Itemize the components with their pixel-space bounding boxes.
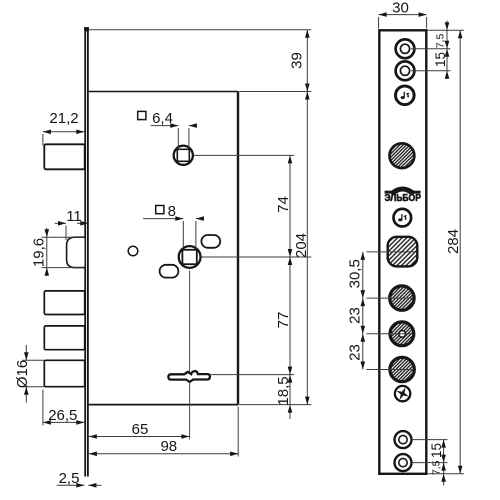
svg-text:11: 11 (66, 208, 82, 225)
faceplate front view plate (379, 30, 426, 474)
dim diameter 16 (22, 345, 44, 403)
deadbolt 3 (44, 360, 84, 386)
latch bolt (beveled) (67, 237, 85, 267)
dim 19,6 (42, 228, 84, 276)
svg-text:30: 30 (392, 0, 409, 16)
dim 98 (89, 407, 238, 457)
faceplate edge view (left) (84, 27, 89, 477)
bolt hole A (hatched) (390, 286, 414, 310)
top bolt (21.2) (44, 144, 84, 169)
svg-text:98: 98 (160, 438, 177, 455)
bottom right dims: 15 / 7,5 (412, 440, 448, 486)
oval cutout upper right (201, 235, 220, 248)
svg-text:2,5: 2,5 (59, 470, 80, 487)
centerline through spindle to 65 dim (189, 271, 191, 440)
svg-text:15: 15 (433, 52, 448, 67)
spindle hub square 6.4 (174, 146, 193, 165)
right-side extension lines of body (89, 30, 311, 405)
dim 15 top (445, 41, 450, 49)
spindle hub square 8 (179, 246, 201, 268)
branded screw B (394, 209, 412, 227)
dim 77 (289, 257, 291, 375)
svg-text:65: 65 (132, 421, 149, 438)
svg-text:15: 15 (429, 443, 444, 458)
dim square 8 (143, 219, 200, 249)
svg-text:74: 74 (275, 196, 292, 213)
svg-text:204: 204 (293, 233, 310, 258)
svg-text:18,5: 18,5 (275, 376, 292, 405)
left side dims of front view: 30,5 / 23 / 23 (363, 252, 415, 370)
dim 7,5 top (445, 22, 450, 30)
svg-text:23: 23 (347, 344, 364, 361)
dim 74 (289, 155, 291, 257)
bolt hole B (hatched, with pin) (390, 322, 414, 346)
dim 204 (306, 92, 308, 405)
dim 30 top (379, 15, 427, 29)
svg-text:39: 39 (289, 52, 306, 69)
screw hole bottom 3 (395, 431, 412, 448)
dim 18,5 (289, 375, 291, 419)
svg-text:284: 284 (445, 229, 462, 254)
leaders from top screw holes (411, 21, 464, 80)
key slot (168, 371, 210, 382)
screw hole top 2 (396, 61, 415, 80)
svg-text:7,5: 7,5 (431, 460, 443, 475)
lock body outline (88, 92, 238, 405)
svg-text:23: 23 (347, 307, 364, 324)
svg-text:19,6: 19,6 (31, 238, 48, 267)
deadbolt 2 (44, 326, 84, 350)
dim 26,5 (43, 390, 84, 426)
svg-text:6,4: 6,4 (152, 110, 173, 127)
dim 65 (89, 436, 189, 438)
dim 21,2 (43, 132, 84, 146)
ELBOR logo (384, 187, 421, 204)
bolt hole C (hatched) (390, 357, 414, 381)
screw hole top 1 (396, 39, 415, 58)
deadbolt 1 (44, 291, 84, 315)
svg-text:21,2: 21,2 (49, 110, 78, 127)
svg-text:30,5: 30,5 (347, 259, 364, 288)
dim 284 right (427, 30, 464, 474)
svg-text:Ø16: Ø16 (14, 360, 31, 388)
dim 2,5 (57, 484, 102, 486)
dim 11 (55, 223, 89, 240)
cylinder escutcheon (hatched rounded square) (388, 237, 418, 267)
screw hole bottom 4 (395, 454, 412, 471)
oval cutout lower left (160, 265, 179, 278)
branded screw A (396, 86, 415, 105)
svg-text:26,5: 26,5 (48, 407, 77, 424)
svg-text:ЭЛЬБОР: ЭЛЬБОР (384, 193, 421, 204)
small hole in body (128, 246, 138, 256)
dim square 6,4 (151, 126, 197, 148)
phillips screw (395, 386, 410, 401)
svg-text:77: 77 (275, 312, 292, 329)
svg-text:8: 8 (168, 203, 176, 220)
cylinder hole (hatched circle big) (390, 143, 415, 168)
dim 39 (306, 30, 308, 92)
